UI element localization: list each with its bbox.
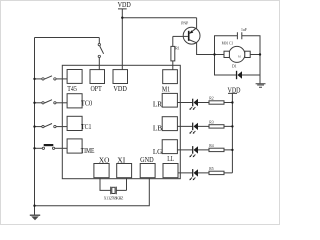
- svg-text:GND: GND: [140, 156, 154, 164]
- svg-text:LB: LB: [153, 125, 163, 133]
- svg-text:OPT: OPT: [91, 85, 103, 93]
- svg-text:M: M: [238, 54, 241, 58]
- svg-text:XO: XO: [99, 156, 110, 164]
- svg-text:T45: T45: [67, 85, 77, 93]
- svg-text:R5: R5: [209, 167, 214, 171]
- svg-text:TC0: TC0: [81, 99, 93, 107]
- svg-text:TIME: TIME: [81, 147, 95, 155]
- svg-text:XI: XI: [117, 156, 126, 164]
- svg-text:PNP: PNP: [181, 22, 188, 26]
- svg-text:LR: LR: [153, 101, 163, 109]
- svg-text:TC1: TC1: [81, 123, 92, 131]
- svg-text:M1: M1: [162, 85, 171, 93]
- svg-text:LL: LL: [167, 155, 174, 163]
- svg-text:R2: R2: [209, 97, 214, 101]
- svg-text:X1 32768KHZ: X1 32768KHZ: [104, 197, 124, 201]
- svg-text:VDD: VDD: [118, 1, 131, 9]
- svg-text:D1: D1: [232, 65, 237, 69]
- svg-text:1uF: 1uF: [241, 28, 247, 32]
- svg-text:R4: R4: [209, 144, 214, 148]
- svg-text:R3: R3: [209, 120, 214, 124]
- svg-text:VDD: VDD: [113, 85, 127, 93]
- svg-text:LG: LG: [153, 148, 162, 156]
- svg-text:M01 C1: M01 C1: [222, 41, 234, 45]
- svg-text:R1: R1: [175, 47, 180, 51]
